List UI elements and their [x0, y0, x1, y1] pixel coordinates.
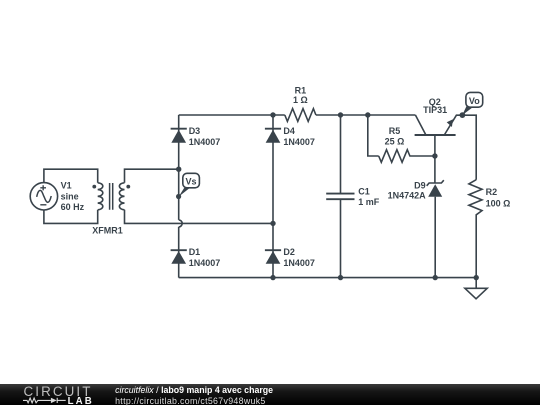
svg-text:TIP31: TIP31	[423, 105, 447, 115]
svg-text:100 Ω: 100 Ω	[486, 198, 511, 208]
svg-text:XFMR1: XFMR1	[92, 226, 123, 236]
svg-text:D2: D2	[283, 247, 295, 257]
svg-text:R2: R2	[486, 187, 498, 197]
svg-text:1N4007: 1N4007	[189, 258, 221, 268]
svg-text:D9: D9	[414, 180, 426, 190]
svg-text:1N4007: 1N4007	[189, 137, 221, 147]
svg-text:25 Ω: 25 Ω	[385, 136, 405, 146]
svg-text:1 Ω: 1 Ω	[293, 95, 308, 105]
svg-text:C1: C1	[358, 187, 370, 197]
svg-text:R5: R5	[389, 126, 401, 136]
svg-text:1N4007: 1N4007	[283, 137, 315, 147]
svg-text:1 mF: 1 mF	[358, 197, 380, 207]
svg-text:D1: D1	[189, 247, 201, 257]
svg-text:V1: V1	[61, 181, 72, 191]
svg-text:60 Hz: 60 Hz	[61, 202, 85, 212]
svg-text:Vo: Vo	[469, 96, 480, 106]
svg-text:sine: sine	[61, 191, 79, 201]
svg-text:D4: D4	[283, 126, 295, 136]
svg-text:D3: D3	[189, 126, 201, 136]
svg-text:1N4742A: 1N4742A	[388, 190, 427, 200]
svg-text:1N4007: 1N4007	[283, 258, 315, 268]
svg-text:Vs: Vs	[185, 176, 196, 186]
svg-text:R1: R1	[295, 85, 307, 95]
